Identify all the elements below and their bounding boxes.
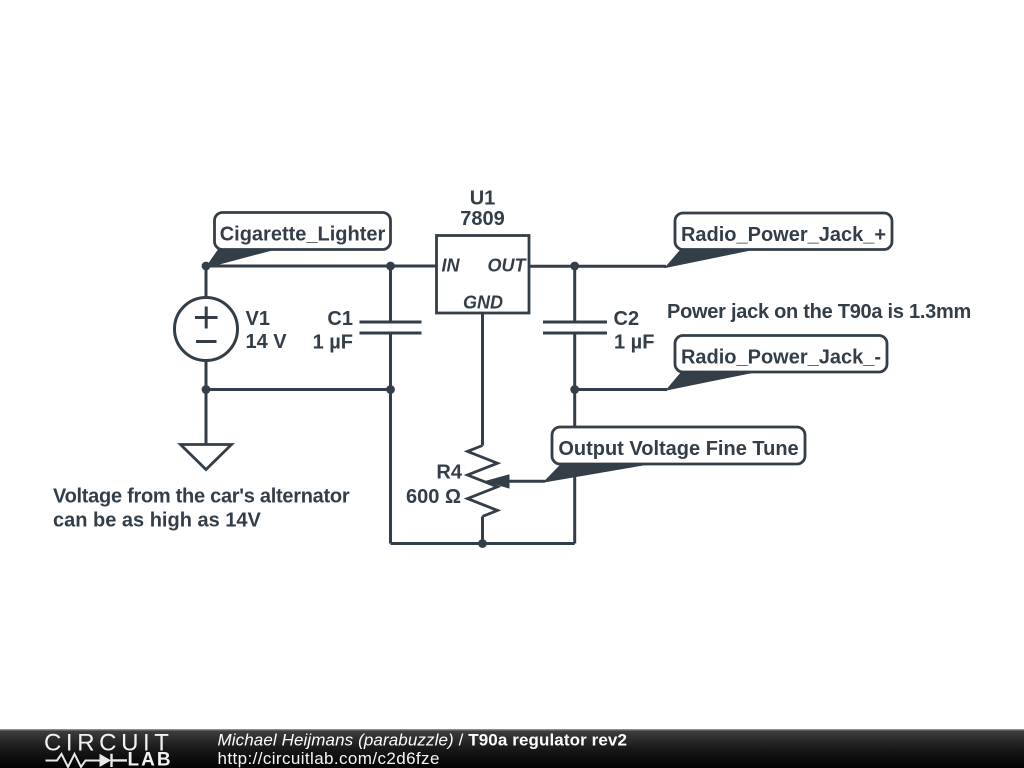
svg-text:Michael Heijmans (parabuzzle): Michael Heijmans (parabuzzle) / T90a reg…	[218, 731, 628, 750]
capacitor C2	[543, 322, 607, 333]
voltage source V1	[175, 266, 238, 361]
svg-text:V1: V1	[246, 308, 270, 330]
wire bottom rail	[391, 542, 575, 545]
flag Output Voltage Fine Tune	[552, 427, 805, 464]
wire left drop to bottom rail	[389, 390, 392, 544]
logo resistor-diode line	[46, 754, 100, 767]
flag Radio_Power_Jack_+ tail	[666, 250, 754, 268]
node C1 bottom junction	[386, 385, 395, 394]
svg-text:GND: GND	[463, 293, 503, 313]
flag Cigarette_Lighter	[215, 213, 391, 250]
ground	[181, 445, 232, 470]
node C2 top junction	[570, 262, 579, 271]
flag Cigarette_Lighter tail	[206, 250, 274, 268]
svg-text:C1: C1	[327, 308, 353, 330]
flag Radio_Power_Jack_- tail	[667, 372, 754, 390]
node R4 bottom junction	[478, 539, 487, 548]
capacitor C1	[360, 322, 422, 333]
svg-text:U1: U1	[470, 188, 496, 210]
svg-text:Output Voltage Fine Tune: Output Voltage Fine Tune	[558, 438, 798, 460]
svg-text:C2: C2	[614, 308, 640, 330]
svg-text:Power jack on the T90a is 1.3m: Power jack on the T90a is 1.3mm	[667, 301, 971, 323]
wire ground stem	[205, 390, 208, 445]
svg-text:Radio_Power_Jack_-: Radio_Power_Jack_-	[681, 347, 881, 369]
wire top rail from node A to U1 IN	[206, 265, 437, 268]
svg-text:7809: 7809	[460, 208, 505, 230]
flag Radio_Power_Jack_+	[675, 213, 892, 250]
svg-text:R4: R4	[436, 462, 462, 484]
wire C2 top lead	[573, 266, 576, 322]
svg-text:Cigarette_Lighter: Cigarette_Lighter	[220, 224, 386, 246]
wire C1 bottom lead	[389, 333, 392, 390]
svg-text:Voltage from the car's alterna: Voltage from the car's alternator	[53, 486, 350, 508]
node V1 bottom junction	[202, 385, 211, 394]
wire C2 bottom lead	[573, 333, 576, 390]
svg-text:IN: IN	[442, 256, 461, 276]
op-amp U1 box (7809 regulator)	[437, 236, 530, 314]
wire R4 bottom lead	[481, 516, 484, 543]
svg-text:600 Ω: 600 Ω	[406, 486, 461, 508]
svg-text:http://circuitlab.com/c2d6fze: http://circuitlab.com/c2d6fze	[218, 749, 440, 768]
R4 wiper arrow	[484, 474, 510, 488]
resistor R4 potentiometer zigzag	[468, 446, 498, 517]
svg-text:LAB: LAB	[128, 750, 173, 768]
node C1 top junction	[386, 262, 395, 271]
svg-text:Radio_Power_Jack_+: Radio_Power_Jack_+	[681, 224, 886, 246]
svg-text:can be as high as 14V: can be as high as 14V	[53, 510, 262, 532]
flag Radio_Power_Jack_-	[675, 336, 887, 373]
wire U1 GND lead to R4	[481, 313, 484, 446]
svg-text:OUT: OUT	[488, 256, 528, 276]
wire node C2 to flag Radio_Power_Jack_- tail	[575, 388, 667, 391]
wire U1 OUT to flag tail	[529, 265, 666, 268]
wire C1 top lead	[389, 266, 392, 322]
wire V1 bottom pin	[205, 361, 208, 390]
svg-text:1 µF: 1 µF	[313, 332, 353, 354]
node C2 bottom junction	[570, 385, 579, 394]
flag Output Voltage Fine Tune tail	[544, 464, 649, 482]
wire lower left rail	[206, 388, 391, 391]
svg-text:1 µF: 1 µF	[614, 332, 654, 354]
footer bar	[0, 729, 1024, 768]
svg-text:14 V: 14 V	[246, 331, 288, 353]
wire R4 wiper to flag tail	[508, 480, 545, 483]
node A (Cigarette lighter node)	[202, 262, 211, 271]
wire right drop to bottom rail	[573, 390, 576, 544]
